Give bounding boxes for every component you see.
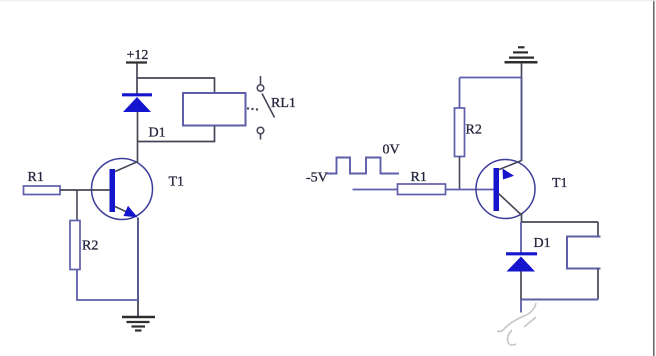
- svg-text:T1: T1: [552, 176, 568, 191]
- svg-text:-5V: -5V: [306, 171, 328, 186]
- wire to ground: [137, 300, 139, 317]
- resistor R1: [24, 186, 61, 195]
- wire down to coil pin: [597, 222, 599, 237]
- svg-text:R2: R2: [466, 123, 482, 138]
- emitter line (top): [499, 161, 522, 170]
- relay coil body (C shape): [567, 237, 601, 269]
- wire rail down to R2: [459, 78, 461, 109]
- wire R1 to base: [446, 189, 495, 191]
- svg-text:0V: 0V: [383, 143, 400, 158]
- diode D1 body: [507, 257, 536, 272]
- wire junction down to diode: [520, 222, 522, 253]
- resistor R1: [398, 184, 446, 195]
- transistor T1 circle: [476, 160, 535, 219]
- diode D1 cathode bar: [122, 93, 152, 96]
- svg-text:+12: +12: [127, 48, 149, 63]
- svg-text:D1: D1: [149, 126, 166, 141]
- watermark remnant: [497, 303, 536, 345]
- wire diode to bottom rail: [520, 272, 522, 300]
- svg-text:R1: R1: [28, 170, 44, 185]
- collector line: [115, 162, 138, 172]
- wire diode to collector: [137, 112, 139, 162]
- transistor T1 circle: [92, 159, 153, 220]
- bottom rail wire: [521, 299, 598, 301]
- wire +12 rail down to diode: [136, 63, 138, 94]
- wire coil pin to bottom rail: [597, 269, 599, 300]
- ground symbol (inverted, top): [505, 47, 538, 62]
- collector line (bottom): [499, 194, 523, 216]
- wire R2 to ground rail: [77, 270, 138, 301]
- emitter arrow (PNP, points to base): [503, 169, 515, 180]
- emitter line: [115, 207, 134, 216]
- wire base junction down to R2: [76, 190, 78, 221]
- relay contact top terminal: [257, 85, 264, 92]
- transistor T1 base bar: [494, 168, 500, 211]
- relay linkage dots: [247, 107, 258, 110]
- wire top rail: [460, 77, 522, 79]
- wire stub below rail: [520, 300, 522, 313]
- relay coil RL1 body: [183, 93, 246, 126]
- relay contact bottom terminal: [257, 127, 264, 134]
- resistor R2: [70, 221, 80, 270]
- svg-text:D1: D1: [534, 236, 551, 251]
- wire junction to relay coil top: [137, 78, 215, 94]
- wire R2 to base rail: [459, 157, 461, 190]
- square wave input: [326, 158, 400, 174]
- relay contact RL1 top lead: [260, 76, 262, 85]
- transistor T1 base bar: [110, 169, 116, 212]
- relay contact bottom lead: [260, 134, 262, 140]
- svg-text:T1: T1: [169, 175, 185, 190]
- wire emitter down: [137, 218, 139, 301]
- wire ground stub: [521, 63, 523, 78]
- diode D1 body: [123, 97, 151, 112]
- wire junction to coil (top): [522, 221, 599, 223]
- frame right edge artifact: [653, 0, 655, 356]
- relay contact blade: [262, 94, 275, 118]
- emitter arrow: [124, 206, 138, 218]
- resistor R2: [455, 108, 465, 157]
- wire R1 to base: [60, 189, 110, 191]
- svg-text:R1: R1: [411, 170, 427, 185]
- wire collector down: [521, 213, 523, 222]
- power rail bar +12: [126, 61, 147, 63]
- frame top edge artifact: [0, 0, 656, 2]
- ground symbol: [122, 317, 155, 331]
- diode D1 cathode bar: [506, 252, 537, 255]
- wire input to R1: [353, 189, 398, 191]
- svg-text:R2: R2: [82, 239, 98, 254]
- wire rail down to emitter: [521, 78, 523, 162]
- wire relay coil bottom return: [138, 126, 215, 142]
- svg-text:RL1: RL1: [271, 96, 296, 111]
